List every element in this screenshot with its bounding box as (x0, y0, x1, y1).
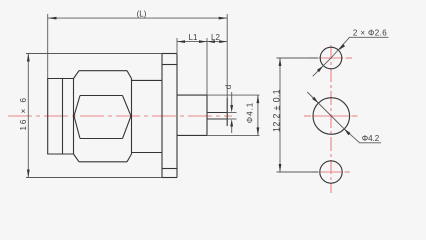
svg-text:L1: L1 (189, 33, 198, 42)
leader 2xPhi2.6 (313, 37, 389, 76)
dimension 12.2+-0.1 (277, 58, 319, 172)
leader Phi4.2 (307, 92, 381, 143)
crosshair top hole (310, 57, 317, 59)
svg-text:Φ4.2: Φ4.2 (362, 134, 380, 143)
svg-text:2 × Φ2.6: 2 × Φ2.6 (353, 29, 387, 38)
bottom hole circle (320, 161, 342, 183)
svg-text:16 × 6: 16 × 6 (19, 96, 28, 130)
dimension (L) (48, 14, 228, 98)
dimension Phi4.1 (207, 95, 260, 135)
dimension d (227, 92, 236, 133)
middle hole circle (313, 98, 350, 135)
hex nut body (74, 71, 132, 162)
vertical centerline (330, 45, 332, 193)
svg-text:Φ4.1: Φ4.1 (246, 102, 255, 124)
crosshair middle hole (304, 115, 311, 117)
centerline left view (8, 115, 232, 117)
crosshair bottom hole (312, 171, 318, 173)
svg-text:(L): (L) (137, 10, 147, 19)
flange side view (162, 54, 177, 178)
svg-text:d: d (224, 85, 233, 89)
cylinder between hex and flange (132, 80, 163, 152)
dimension L1 / L2 (177, 38, 227, 95)
svg-text:12.2 ± 0.1: 12.2 ± 0.1 (272, 89, 282, 132)
center pin (207, 98, 227, 126)
svg-text:L2: L2 (211, 33, 220, 42)
left end cap rect (47, 79, 73, 155)
top hole circle (320, 47, 342, 69)
dimension 16x6 (26, 54, 162, 178)
dielectric body (177, 95, 207, 135)
